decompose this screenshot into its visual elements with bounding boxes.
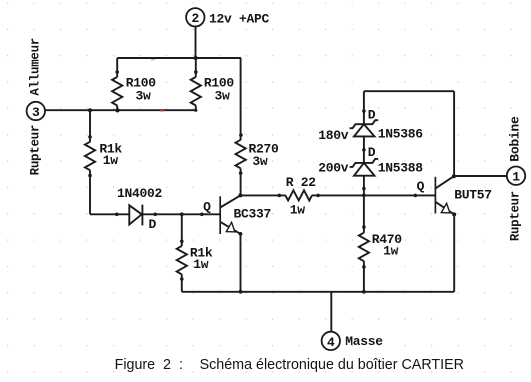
svg-text:Figure 2 :: Figure 2 : <box>115 357 183 373</box>
svg-text:Q: Q <box>417 179 425 194</box>
svg-text:Masse: Masse <box>345 334 383 349</box>
svg-text:4: 4 <box>327 335 335 350</box>
svg-text:Q: Q <box>203 200 211 215</box>
svg-text:Rupteur: Rupteur <box>507 191 522 241</box>
svg-text:Schéma électronique du boîtier: Schéma électronique du boîtier CARTIER <box>200 357 464 373</box>
svg-text:3w: 3w <box>136 89 152 104</box>
svg-text:1N5386: 1N5386 <box>378 126 424 141</box>
svg-text:1N4002: 1N4002 <box>117 186 163 201</box>
svg-text:D: D <box>149 217 157 232</box>
svg-text:1w: 1w <box>193 257 209 272</box>
svg-text:180v: 180v <box>318 128 349 143</box>
svg-text:1: 1 <box>512 170 520 185</box>
svg-text:1w: 1w <box>383 244 399 259</box>
svg-text:12v +APC: 12v +APC <box>209 12 270 27</box>
svg-text:1N5388: 1N5388 <box>378 161 424 176</box>
svg-text:BC337: BC337 <box>234 207 272 222</box>
svg-text:Bobine: Bobine <box>507 116 522 162</box>
svg-text:Rupteur: Rupteur <box>28 125 43 176</box>
svg-text:3: 3 <box>32 105 40 120</box>
svg-text:Allumeur: Allumeur <box>28 38 43 96</box>
svg-text:BUT57: BUT57 <box>454 187 492 202</box>
svg-text:R 22: R 22 <box>286 175 317 190</box>
svg-text:D: D <box>368 108 376 123</box>
svg-text:1w: 1w <box>290 203 306 218</box>
svg-text:2: 2 <box>192 11 200 26</box>
svg-text:D: D <box>368 145 376 160</box>
svg-text:200v: 200v <box>318 160 349 175</box>
svg-text:3w: 3w <box>252 154 268 169</box>
svg-text:3w: 3w <box>215 89 231 104</box>
svg-text:1w: 1w <box>103 153 119 168</box>
